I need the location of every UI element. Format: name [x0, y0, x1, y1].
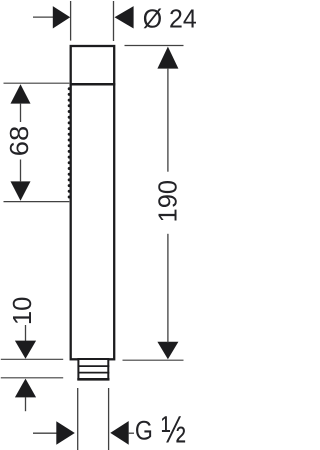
nozzle dots — [68, 87, 71, 198]
dim 190 line upper segment — [167, 68, 169, 172]
dim 10 down arrowhead — [15, 341, 36, 359]
head junction line — [70, 83, 116, 86]
dim 68 bottom extension line — [4, 201, 70, 203]
dim G1/2 left arrow tail — [33, 432, 57, 434]
dim 68 top extension line — [4, 82, 70, 84]
dim G1/2 right arrowhead — [110, 421, 128, 445]
dim Ø24 right tick — [113, 1, 115, 41]
dim G1/2 left arrowhead — [56, 421, 75, 445]
connector thread line 1 — [78, 365, 110, 367]
dim Ø24 left arrow tail — [33, 16, 54, 18]
dim G1/2 right arrow stub — [129, 432, 134, 434]
dim 10 bottom extension line — [1, 377, 63, 379]
dim 190 up arrowhead — [157, 47, 178, 69]
dim 10 line above upper arrow — [25, 325, 27, 341]
dim G1/2 left tick — [77, 388, 79, 450]
svg-text:10: 10 — [7, 297, 37, 326]
dim 190 top extension line — [125, 45, 184, 47]
svg-text:½: ½ — [161, 410, 186, 450]
dim G1/2 right tick — [108, 388, 110, 450]
dim Ø24 right arrowhead — [115, 6, 134, 28]
dim 68 line lower segment — [20, 160, 22, 183]
dim 10 top extension line — [1, 358, 63, 360]
svg-text:Ø 24: Ø 24 — [143, 3, 197, 33]
svg-text:68: 68 — [4, 126, 34, 157]
dim Ø24 left tick — [70, 1, 72, 41]
dim 190 line lower segment — [167, 234, 169, 343]
connector bottom edge — [77, 378, 109, 381]
dim 10 line below lower arrow — [25, 397, 27, 411]
shower body outline — [71, 46, 115, 359]
connector thread line 2 — [78, 372, 110, 374]
svg-text:190: 190 — [153, 180, 183, 223]
dim 190 bottom extension line — [123, 359, 184, 361]
dim 190 down arrowhead — [157, 342, 178, 359]
dim 68 line upper segment — [20, 103, 22, 122]
dim 68 down arrowhead — [11, 181, 31, 200]
dim 10 up arrowhead — [15, 379, 36, 398]
svg-text:G: G — [135, 415, 153, 445]
dim 68 up arrowhead — [11, 84, 31, 103]
threaded connector outline — [78, 359, 108, 379]
dim Ø24 left arrowhead — [53, 6, 70, 28]
